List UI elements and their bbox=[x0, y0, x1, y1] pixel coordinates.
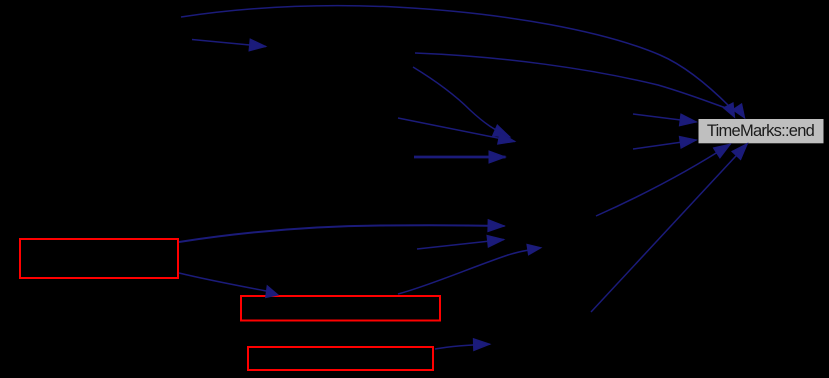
edge: top-left node to TimeMarks::end (long top curve) bbox=[181, 6, 735, 119]
node TimeMarks::end (grey current node) bbox=[707, 122, 815, 140]
red node box 1 (top left caller) bbox=[20, 239, 178, 278]
edge: mid node to TimeMarks::end left upper bbox=[633, 114, 697, 122]
red node box 2 (middle caller) bbox=[241, 296, 440, 321]
edge: red box 1 down to red box 2 bbox=[179, 273, 279, 298]
edge: invisible node S-curve down to mid invisible node bbox=[413, 67, 510, 137]
red node box 3 (bottom caller) bbox=[248, 347, 433, 370]
edge: red box 2 up to invisible node bbox=[398, 244, 543, 294]
node TimeMarks::end box fill bbox=[699, 119, 824, 143]
edge: invisible node to upper invisible node (short line) bbox=[417, 240, 504, 250]
edge: mid node to TimeMarks::end left lower bbox=[633, 140, 697, 149]
edge: invisible node to TimeMarks::end (second top curve) bbox=[415, 53, 746, 119]
edge: top-left node 2 to middle invisible node bbox=[192, 40, 266, 47]
edge: lower mid node to TimeMarks::end bottom (short diagonal) bbox=[596, 144, 731, 216]
edge: red box 1 to upper invisible node (long flat curve) bbox=[179, 225, 505, 242]
edge: red box 3 to invisible node bbox=[435, 344, 490, 349]
edge: horizontal double line to mid invisible node bbox=[414, 156, 506, 159]
svg-text:TimeMarks::end: TimeMarks::end bbox=[707, 122, 815, 140]
edge: straight line to mid invisible node bbox=[398, 118, 515, 142]
edge: bottom node to TimeMarks::end bottom (long diagonal) bbox=[591, 144, 748, 313]
